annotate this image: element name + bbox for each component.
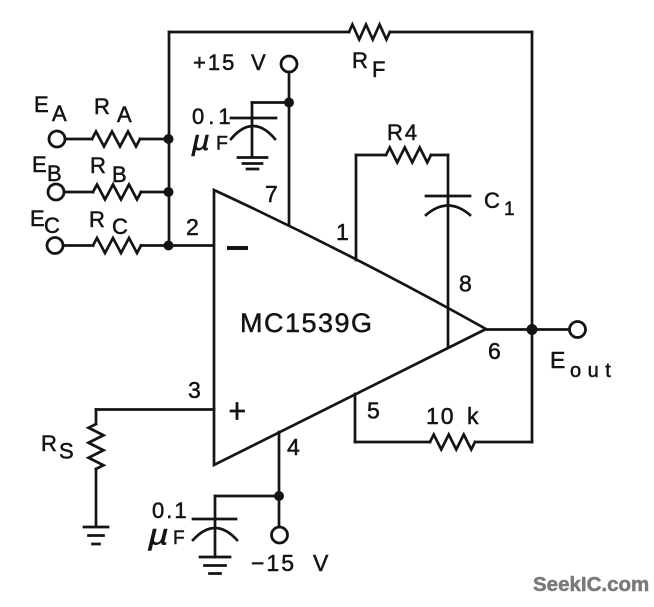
capacitor C1 curved plate — [426, 206, 470, 216]
svg-text:10: 10 — [426, 403, 456, 429]
terminal -15V — [272, 527, 288, 543]
svg-text:2: 2 — [186, 214, 199, 240]
capacitor 0.1uF bottom top plate — [193, 518, 236, 521]
terminal Eout — [570, 322, 586, 338]
label RA — [94, 94, 132, 127]
svg-text:V: V — [251, 50, 266, 75]
ground (top bypass) — [238, 158, 267, 170]
wire top right segment — [390, 31, 532, 34]
node junction C (summing node) — [164, 241, 174, 251]
node junction -15 — [274, 491, 284, 501]
svg-text:µ: µ — [147, 518, 169, 551]
capacitor 0.1uF top plate — [231, 117, 276, 120]
label RS — [41, 431, 74, 464]
svg-text:C: C — [112, 214, 128, 239]
wire right bus — [531, 32, 534, 442]
capacitor 0.1uF bottom curved plate — [193, 528, 237, 540]
svg-text:V: V — [313, 550, 329, 576]
terminal EA — [49, 131, 65, 147]
wire pin3 — [96, 408, 214, 411]
svg-text:B: B — [112, 162, 127, 187]
svg-text:E: E — [32, 152, 47, 177]
label EA — [34, 92, 67, 126]
svg-text:5: 5 — [367, 398, 380, 424]
wire pin1 — [355, 155, 358, 260]
wire RS to ground — [95, 469, 98, 527]
svg-text:S: S — [59, 439, 74, 464]
label RF — [352, 48, 385, 82]
terminal EC — [47, 238, 63, 254]
svg-text:R: R — [41, 431, 57, 456]
wire junction to -15V terminal — [278, 496, 281, 527]
svg-text:µ: µ — [190, 124, 209, 156]
svg-text:E: E — [30, 206, 45, 231]
svg-text:k: k — [467, 403, 479, 429]
wire R4 to C1 — [431, 154, 448, 157]
label C1 — [484, 188, 515, 220]
capacitor 0.1uF bottom lead — [214, 496, 217, 557]
svg-text:F: F — [216, 133, 228, 155]
op-amp plus sign — [231, 404, 244, 419]
wire EA to RA — [65, 138, 92, 141]
svg-text:+15: +15 — [193, 50, 236, 75]
svg-text:1: 1 — [336, 219, 349, 245]
svg-text:1: 1 — [504, 199, 515, 220]
wire top left segment — [169, 31, 349, 34]
capacitor C1 top plate — [426, 195, 470, 198]
svg-text:4: 4 — [287, 434, 300, 460]
svg-text:B: B — [47, 161, 62, 186]
node junction A — [164, 134, 174, 144]
wire left bus — [168, 32, 171, 246]
svg-text:R4: R4 — [387, 120, 419, 145]
svg-text:MC1539G: MC1539G — [240, 308, 374, 338]
resistor RF — [349, 25, 390, 40]
svg-text:SeekIC.com: SeekIC.com — [533, 573, 649, 596]
label RC — [89, 207, 128, 239]
capacitor C1 lead / wire pin8 — [447, 155, 450, 347]
svg-text:−15: −15 — [251, 550, 296, 576]
terminal +15V — [281, 56, 297, 72]
wire to bypass cap top — [252, 101, 289, 104]
wire pin2 — [169, 244, 214, 247]
svg-text:F: F — [173, 528, 185, 549]
svg-text:R: R — [90, 153, 106, 178]
svg-text:R: R — [89, 207, 105, 232]
capacitor 0.1uF curved plate — [231, 126, 275, 139]
svg-text:out: out — [570, 360, 617, 382]
resistor R4 — [386, 148, 431, 163]
capacitor 0.1uF top lead — [251, 103, 254, 158]
resistor 10k — [430, 435, 475, 450]
svg-text:E: E — [550, 347, 565, 373]
svg-text:E: E — [34, 92, 49, 117]
wire 10k to right bus — [475, 441, 532, 444]
label Eout — [550, 347, 617, 382]
resistor RS — [89, 424, 104, 469]
wire RB to bus — [141, 191, 169, 194]
svg-text:7: 7 — [265, 181, 278, 207]
svg-text:6: 6 — [488, 338, 501, 364]
label EC — [30, 206, 60, 238]
wire EC to RC — [63, 244, 93, 247]
op-amp U1 triangle — [214, 190, 486, 465]
svg-text:A: A — [117, 102, 132, 127]
node output junction — [527, 324, 538, 335]
wire to bottom bypass cap — [215, 495, 279, 498]
resistor RC — [93, 238, 141, 253]
wire +15V down to pin7 — [288, 72, 291, 226]
ground (bottom bypass) — [200, 557, 230, 574]
svg-text:R: R — [352, 48, 368, 73]
op-amp minus sign — [229, 246, 246, 250]
wire pin5 to 10k — [355, 441, 430, 444]
wire R4 top left — [356, 154, 386, 157]
label EB — [32, 152, 62, 186]
wire RC to bus — [141, 244, 169, 247]
wire pin3 down to RS — [95, 410, 98, 425]
node junction +15 — [284, 98, 294, 108]
wire output pin6 — [486, 328, 569, 331]
svg-text:C: C — [44, 213, 60, 238]
terminal EB — [48, 184, 64, 200]
wire RA to bus — [140, 138, 169, 141]
label RB — [90, 153, 127, 187]
resistor RA — [92, 132, 140, 147]
svg-text:F: F — [372, 57, 385, 82]
resistor RB — [93, 185, 141, 200]
node junction B — [164, 187, 174, 197]
svg-text:C: C — [484, 188, 500, 213]
svg-text:3: 3 — [188, 377, 201, 403]
wire pin4 — [278, 432, 281, 496]
svg-text:8: 8 — [459, 271, 472, 297]
svg-text:A: A — [52, 101, 67, 126]
ground (RS) — [84, 527, 108, 544]
wire pin5 — [354, 394, 357, 442]
wire EB to RB — [64, 191, 93, 194]
svg-text:R: R — [94, 94, 110, 119]
